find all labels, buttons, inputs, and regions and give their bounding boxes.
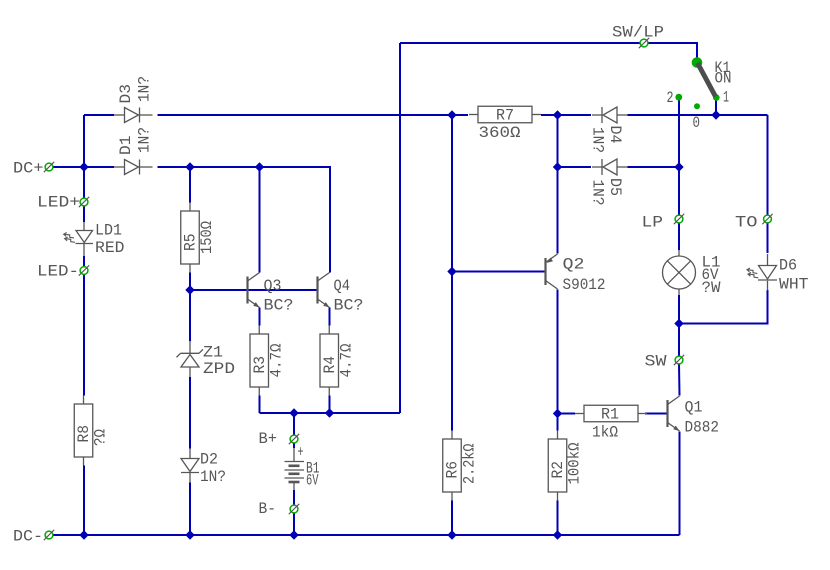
resistor R8	[74, 396, 93, 466]
diode D3	[114, 108, 153, 123]
terminal B-	[289, 504, 299, 514]
svg-text:1: 1	[723, 89, 729, 107]
svg-text:LED+: LED+	[37, 194, 80, 212]
svg-text:?Ω: ?Ω	[92, 429, 110, 446]
junction lamp / D6	[674, 319, 683, 328]
wire	[628, 114, 768, 116]
svg-text:4.7Ω: 4.7Ω	[268, 343, 286, 377]
svg-text:ON: ON	[715, 70, 732, 88]
junction rail / D5 drop	[553, 110, 562, 119]
wire Q3 Q4 base line	[190, 289, 318, 291]
junction R1 / R2 / Q2	[553, 409, 562, 418]
svg-text:D5: D5	[606, 178, 624, 196]
zener Z1	[177, 341, 204, 377]
svg-text:TO: TO	[735, 214, 758, 232]
wire LED- to R8	[83, 256, 85, 396]
svg-text:2.2kΩ: 2.2kΩ	[461, 443, 479, 484]
diode D4	[592, 107, 628, 123]
wire to TO	[767, 115, 769, 223]
svg-text:0: 0	[693, 114, 701, 132]
svg-text:R3: R3	[251, 356, 269, 374]
wire long vertical SW/LP	[399, 43, 401, 413]
wire to Q2 emitter	[557, 167, 559, 254]
terminal SW/LP	[639, 38, 649, 48]
terminal B+	[289, 434, 299, 444]
wire	[84, 114, 114, 116]
LED LD1	[76, 222, 94, 256]
svg-text:Z1: Z1	[203, 344, 223, 362]
diode D5	[592, 159, 628, 175]
wire lamp bottom to D6	[679, 290, 768, 324]
svg-text:150Ω: 150Ω	[198, 221, 216, 254]
resistor R2	[548, 431, 567, 501]
wire R7 node to R6	[451, 115, 453, 431]
svg-text:D3: D3	[117, 84, 135, 104]
terminal DC+	[44, 162, 54, 172]
junction K1-1 / rail	[711, 110, 720, 119]
transistor Q4	[318, 273, 330, 308]
wire	[158, 114, 469, 116]
svg-text:LD1: LD1	[95, 222, 122, 240]
junction emitter rail / B+	[289, 408, 298, 417]
wire K1 contact1	[715, 99, 717, 115]
wire	[558, 413, 576, 415]
LED LD1 light arrows	[64, 233, 75, 243]
junction R7 line / R6 column	[447, 110, 456, 119]
switch K1 contact 1	[713, 94, 720, 101]
wire top net SW/LP to K1	[400, 43, 697, 60]
svg-text:+: +	[298, 444, 304, 462]
transistor Q3	[248, 273, 260, 308]
svg-text:R6: R6	[444, 461, 462, 479]
wire Z1 to D2	[189, 377, 191, 449]
wire left column upper	[83, 115, 85, 222]
svg-text:1N?: 1N?	[589, 127, 607, 153]
junction rail / D2	[185, 530, 194, 539]
resistor R6	[443, 431, 462, 501]
switch K1 contact 0	[694, 103, 700, 109]
svg-text:R8: R8	[75, 425, 93, 443]
terminal LED-	[79, 265, 89, 275]
svg-text:Q4: Q4	[334, 277, 351, 295]
svg-text:D882: D882	[685, 419, 720, 437]
wire Q1 emitter to rail	[679, 432, 681, 536]
svg-text:1N?: 1N?	[200, 468, 226, 486]
svg-text:1N?: 1N?	[589, 180, 607, 206]
junction rail / R8	[79, 530, 88, 539]
svg-text:R2: R2	[549, 461, 567, 479]
junction rail / B-	[289, 530, 298, 539]
LED D6 light arrows	[747, 268, 758, 278]
wire R8 to rail	[83, 466, 85, 536]
junction rail / R2	[553, 530, 562, 539]
terminal SW	[674, 355, 684, 365]
wire D2 to rail	[189, 483, 191, 536]
wire R3 to rail	[259, 396, 261, 414]
svg-text:S9012: S9012	[563, 276, 606, 294]
wire Q2 collector to R2	[557, 290, 559, 431]
wire R4 to rail	[329, 396, 331, 414]
svg-text:100kΩ: 100kΩ	[566, 442, 584, 484]
terminal DC-	[44, 530, 54, 540]
svg-text:D1: D1	[117, 136, 135, 156]
resistor R3	[250, 326, 269, 396]
wire D5 to LP net	[628, 166, 680, 168]
wire lamp to SW	[678, 295, 680, 364]
wire Q3 emitter to R3	[259, 308, 261, 326]
wire R5 to Z1	[189, 273, 191, 342]
svg-text:DC+: DC+	[13, 160, 44, 178]
svg-text:SW/LP: SW/LP	[612, 24, 664, 42]
svg-text:4.7Ω: 4.7Ω	[338, 343, 356, 377]
wire	[189, 167, 191, 203]
battery B1	[285, 448, 305, 490]
svg-text:Q2: Q2	[563, 256, 585, 274]
switch K1 pole contact	[692, 57, 703, 68]
resistor R5	[181, 203, 200, 273]
junction Q2 base / R6	[447, 267, 456, 276]
svg-text:1N?: 1N?	[136, 76, 154, 102]
junction DC+ / LED column	[79, 162, 88, 171]
wire	[557, 115, 559, 167]
svg-text:DC-: DC-	[13, 528, 43, 546]
svg-text:WHT: WHT	[779, 276, 809, 294]
wire Q4 emitter to R4	[329, 308, 331, 326]
wire D1 to Q4 collector	[158, 167, 331, 273]
wire	[541, 114, 591, 116]
wire Q2 base	[452, 271, 546, 273]
svg-text:360Ω: 360Ω	[479, 124, 521, 142]
lamp L1	[663, 250, 696, 295]
svg-text:BC?: BC?	[334, 297, 364, 315]
diode D1	[114, 160, 153, 175]
transistor Q1	[668, 396, 680, 431]
svg-text:RED: RED	[95, 239, 125, 257]
wire TO to D6	[767, 223, 769, 253]
junction DC+ / Q3	[255, 162, 264, 171]
LED D6	[758, 254, 777, 291]
svg-text:1kΩ: 1kΩ	[592, 424, 618, 442]
svg-text:D6: D6	[779, 257, 797, 275]
wire Q3 collector	[259, 167, 261, 273]
svg-text:2: 2	[667, 89, 674, 107]
svg-text:D2: D2	[200, 451, 218, 469]
resistor R1	[575, 405, 647, 422]
wire R6 to rail	[451, 501, 453, 536]
junction DC+ / R5	[185, 162, 194, 171]
wire bottom rail DC-	[53, 534, 680, 536]
svg-text:R4: R4	[321, 356, 339, 374]
junction D5 / Q2	[553, 162, 562, 171]
switch K1 contact 2	[675, 94, 682, 101]
svg-text:SW: SW	[645, 353, 667, 371]
wire R2 to rail	[557, 501, 559, 536]
resistor R4	[320, 326, 339, 396]
svg-text:R7: R7	[496, 107, 514, 125]
svg-text:6V: 6V	[306, 472, 319, 490]
terminal LP	[674, 214, 684, 224]
resistor R7	[469, 106, 541, 123]
wire K1 contact2 to lamp	[678, 97, 680, 250]
svg-text:D4: D4	[606, 126, 624, 144]
wire	[293, 443, 295, 448]
svg-text:R5: R5	[182, 234, 200, 252]
junction D5 / LP net	[674, 162, 683, 171]
terminal TO	[762, 214, 772, 224]
svg-text:ZPD: ZPD	[203, 360, 235, 378]
svg-text:Q1: Q1	[685, 399, 703, 417]
svg-text:LP: LP	[642, 214, 664, 232]
svg-text:R1: R1	[601, 406, 619, 424]
wire battery to rail	[293, 490, 295, 535]
wire emitter rail	[260, 412, 401, 414]
wire B+ drop	[293, 413, 295, 439]
wire SW to Q1 collector	[678, 364, 681, 396]
junction rail / R6	[447, 530, 456, 539]
svg-text:?W: ?W	[702, 279, 721, 297]
svg-text:B-: B-	[259, 500, 277, 518]
svg-text:1N?: 1N?	[136, 127, 154, 153]
wire	[558, 166, 592, 168]
svg-text:BC?: BC?	[264, 297, 294, 315]
junction emitter rail / R4	[325, 408, 334, 417]
terminal LED+	[79, 197, 89, 207]
transistor Q2	[546, 254, 558, 289]
diode D2	[181, 449, 199, 483]
junction R5 / base line	[185, 285, 194, 294]
svg-text:Q3: Q3	[264, 277, 282, 295]
wire DC+ to D1	[53, 166, 114, 168]
svg-text:LED-: LED-	[37, 263, 79, 281]
svg-text:B+: B+	[259, 430, 278, 448]
switch K1 lever	[698, 63, 716, 97]
wire R1 to Q1 base	[645, 413, 668, 415]
